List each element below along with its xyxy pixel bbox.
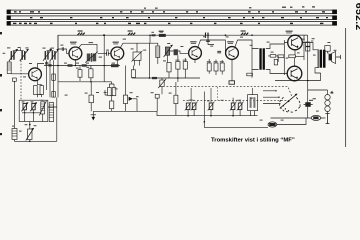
volume potentiometer (158, 78, 166, 94)
switch contact under T5 (229, 81, 235, 84)
bus corner down to switch bus (157, 111, 258, 115)
battery bottom lead (327, 112, 329, 114)
junction dots output (294, 80, 296, 82)
resistor pair column x108-115 (108, 88, 112, 96)
scan edge mark 3 (0, 109, 2, 111)
T3 base coupling capacitor (107, 51, 109, 55)
resistor below IF1 secondary (167, 63, 171, 72)
bottom wire left section (14, 140, 56, 142)
rail series resistor small (151, 34, 155, 36)
tiny figure numbers above strip A (144, 6, 315, 8)
resistor R13 under T4 area (176, 62, 180, 70)
drum switch contact strip row B (9, 16, 337, 20)
driver transformer secondary leads (266, 44, 285, 74)
drum switch contact strip row C (9, 22, 337, 26)
detector drop to bus (136, 99, 138, 112)
transistor T5 (226, 47, 239, 60)
electrolytic C20 (12, 129, 17, 142)
trimmer bottoms to bus (188, 110, 254, 116)
decoupling column wire x53.5 (53, 60, 55, 97)
IF transformer 1 primary winding (156, 46, 160, 64)
junction small box x157 (155, 94, 159, 98)
T2 collector wire to 30k node (78, 44, 97, 53)
link box to right column (48, 97, 57, 141)
choke labels above rail (78, 30, 246, 31)
fuse holder oval (268, 122, 277, 127)
drum switch strip A left end cam (7, 10, 11, 15)
resistor R9 inline on bus (82, 64, 87, 66)
trimmer group 3a (230, 98, 237, 111)
drum switch strip A right end cam (332, 10, 337, 15)
resistor R14 under T4 area (183, 62, 187, 70)
series resistor to T4 base (dark) (174, 49, 178, 55)
coupling capacitor on x50 (48, 65, 51, 66)
ferrite antenna coil L4 (50, 49, 59, 61)
T1 emitter wire down (37, 80, 39, 85)
secondary centre resistor (270, 55, 276, 58)
rail junction dot x104 (103, 34, 105, 36)
rail choke near driver (241, 33, 248, 36)
detector diode D1 (129, 97, 137, 101)
earphone jack socket (311, 115, 321, 120)
drop from bus to lower wire (204, 116, 268, 128)
rotary band switch wafer (263, 90, 300, 112)
T6 base wire (284, 43, 288, 74)
value labels cluster detector row (65, 88, 172, 97)
T3 label (113, 42, 119, 43)
value labels cluster output section (286, 38, 337, 58)
dashed gang link volume to switch (167, 87, 293, 97)
T4 base wire (170, 51, 189, 53)
junction dots on switch bus (187, 115, 189, 117)
drum switch strip B left end cam (7, 15, 11, 20)
T6 collector to rail (295, 34, 308, 36)
tiny value labels row (175, 60, 223, 63)
T3 collector wire to IF1 (120, 43, 150, 48)
T6 base vertical link (283, 40, 285, 75)
output transformer primary thin bar (318, 50, 319, 68)
wire rail drop x150 to IF1 (150, 35, 158, 46)
coupling capacitor on x46.5 (45, 63, 48, 64)
resistor leads under T4/T5 (178, 55, 232, 81)
bottom bus y111.3 (93, 110, 157, 112)
rail bypass capacitor C near T4 (206, 33, 209, 38)
resistor R6 on x53.5 lower (52, 92, 56, 98)
trimmer group 1a (185, 88, 194, 110)
antenna coil top bracket wire (13, 48, 24, 50)
oscillator transformer windings (85, 52, 97, 63)
loudspeaker LS (329, 52, 341, 64)
electrolytic on supply column (306, 41, 314, 51)
vertical node x304 (303, 35, 305, 60)
wire T6 collector to output transformer top (302, 43, 319, 50)
transistor T1 (29, 68, 42, 81)
electrolytic C7 below bus (89, 69, 93, 78)
value labels cluster converter section (60, 32, 183, 69)
battery B1 cell 1 (325, 95, 330, 100)
strip row B contact position marks (30, 17, 328, 18)
resistor R10 inline on bus (111, 64, 119, 67)
trimmer group 3b (237, 99, 244, 110)
vertical feed wire x13 (13, 81, 15, 128)
emitter ground bus y81.8 (58, 81, 112, 83)
junction dot lower (204, 121, 206, 123)
neutralizing capacitor drop from rail (206, 35, 210, 42)
trimmer group 1b (191, 102, 198, 111)
AGC column wire x50 (49, 60, 51, 97)
resistor R12 detector column (123, 95, 127, 103)
output transformer core bar 1 (320, 50, 322, 68)
wire L1 top to box (8, 61, 10, 63)
resistor R7 column x91 (89, 95, 93, 103)
battery top lead (308, 90, 328, 95)
supply column x307.7 (307, 35, 309, 95)
dashed band switch link (183, 99, 287, 101)
T6 label (286, 31, 293, 32)
bias capacitor near transformer (274, 59, 277, 65)
resistor under driver primary (247, 73, 253, 76)
transistor T2 (69, 47, 82, 60)
junction dots bottom left (29, 124, 31, 126)
dashed vertical gang link (216, 87, 218, 100)
strip row C contact position marks (13, 23, 323, 24)
inline resistor on AGC wire (152, 77, 157, 79)
battery B1 cell 2 (325, 100, 330, 105)
trimmer R30 with arrow (26, 122, 34, 142)
trimmer cap top left (13, 78, 17, 81)
resistor R11 below bus (78, 70, 82, 78)
resistor R3 (T1 emitter) (34, 86, 38, 95)
driver transformer primary lead (252, 49, 259, 78)
T4 collector wire up/right (198, 40, 226, 53)
IF transformer 1 secondary winding (164, 45, 173, 57)
resistor R19 horizontal (278, 55, 284, 58)
value labels cluster switch row (190, 93, 334, 121)
page frame right border (345, 28, 347, 147)
rail junction node (103, 34, 105, 36)
switch contact studs (283, 105, 284, 106)
T2 label (70, 42, 77, 43)
battery B1 cell 3 (325, 106, 330, 111)
rail choke Dr3 blob (159, 34, 166, 37)
speaker to secondary wire (328, 51, 329, 53)
trimmer 2 (208, 88, 215, 110)
resistor R16 (214, 63, 218, 71)
resistor R5 on x53.5 (52, 74, 56, 80)
long vertical x149.4 rail to AGC (148, 43, 150, 78)
value labels cluster IF section (163, 36, 274, 61)
osc trimmer 1 (22, 102, 29, 111)
resistor in detector return column (174, 95, 178, 103)
wire fuse to jack column (277, 118, 306, 125)
T1 collector wire up (38, 64, 45, 70)
resistor R20 horizontal (289, 55, 296, 58)
osc trimmer 2 (30, 102, 37, 111)
output line to earphone jack (271, 117, 325, 119)
T2 base coupling capacitor (62, 47, 63, 50)
drum switch strip C right end cam (332, 21, 337, 26)
value labels cluster antenna section (3, 47, 54, 77)
resistor R8 inline on bus (68, 64, 73, 66)
resistor at AGC left end (131, 70, 135, 78)
small capacitor between stages (217, 51, 221, 53)
drum switch strip B right end cam (332, 15, 337, 20)
transformer bottom lead (315, 68, 321, 81)
output transformer core bar 2 (323, 50, 326, 68)
wire antenna box to T1 base (11, 73, 29, 75)
left bias bus wire (44, 65, 120, 67)
value labels cluster oscillator box (12, 100, 43, 132)
ferrite antenna coil L1 (9, 49, 18, 61)
outer band coil (49, 103, 53, 122)
scan edge mark 1 (0, 32, 2, 34)
transistor T7 (287, 66, 302, 81)
capacitor C4 (T1 emitter) (40, 86, 43, 95)
label 30k (89, 42, 94, 43)
supply into DK jack (307, 95, 309, 118)
T5 label (227, 41, 233, 42)
oscillator coil pack box (19, 100, 48, 121)
long vertical wire x104 (103, 35, 105, 82)
osc coil adjustable (39, 101, 46, 116)
scan edge mark 2 (0, 74, 2, 77)
T3 base wire (98, 52, 111, 54)
ferrite antenna coil L2 (20, 49, 29, 61)
rail junction dot x150 (149, 35, 151, 37)
resistor R15 (207, 63, 211, 71)
wire L-shape into detector (105, 90, 107, 95)
bottom rail y80.5 output stage (275, 80, 321, 82)
drum switch strip C left end cam (7, 21, 11, 26)
converter coupling box (132, 43, 143, 65)
tuning gang dashed link vertical (20, 61, 22, 101)
jack plug pin (324, 114, 329, 124)
inner bus of coil box (22, 110, 43, 122)
choke Dr2 on rail (128, 33, 135, 36)
T4 label (190, 41, 196, 42)
svg-text:Tromskifter vist i stilling “M: Tromskifter vist i stilling “MF” (211, 137, 295, 143)
DK jack blob (304, 100, 313, 107)
drum switch contact strip row A (9, 10, 337, 14)
AGC wire y78 (132, 77, 200, 79)
T3 emitter down (116, 60, 118, 66)
scan edge mark 4 (0, 133, 2, 135)
transistor T3 (111, 47, 124, 60)
secondary top box (325, 46, 330, 52)
driver transformer core bar 1 (259, 48, 261, 69)
junction dots on AGC wire (149, 77, 151, 79)
T7 collector down (294, 80, 296, 82)
T2 emitter wire down (74, 60, 76, 66)
AGC column wire x46.5 (46, 60, 48, 90)
antenna coil L3-L4 bracket wire (47, 48, 54, 51)
driver transformer core bar 2 (263, 48, 265, 69)
ferrite antenna coil L3 (43, 49, 52, 61)
resistor R17 (220, 63, 224, 71)
transistor T6 (288, 35, 303, 50)
supply vertical wire x58 (57, 35, 59, 97)
supply rail top wire (58, 35, 307, 50)
T5 collector wire to driver transformer (235, 40, 252, 49)
coil former box (7, 62, 11, 74)
choke Dr1 on rail (78, 33, 85, 36)
strip row A contact position marks (14, 11, 325, 12)
battery plus mark (331, 91, 334, 94)
svg-text:652.2: 652.2 (353, 3, 360, 31)
band coil unit box (248, 88, 258, 111)
padder riser wire (203, 92, 205, 116)
chassis ground arrow (91, 111, 96, 120)
transistor T4 (189, 47, 202, 60)
